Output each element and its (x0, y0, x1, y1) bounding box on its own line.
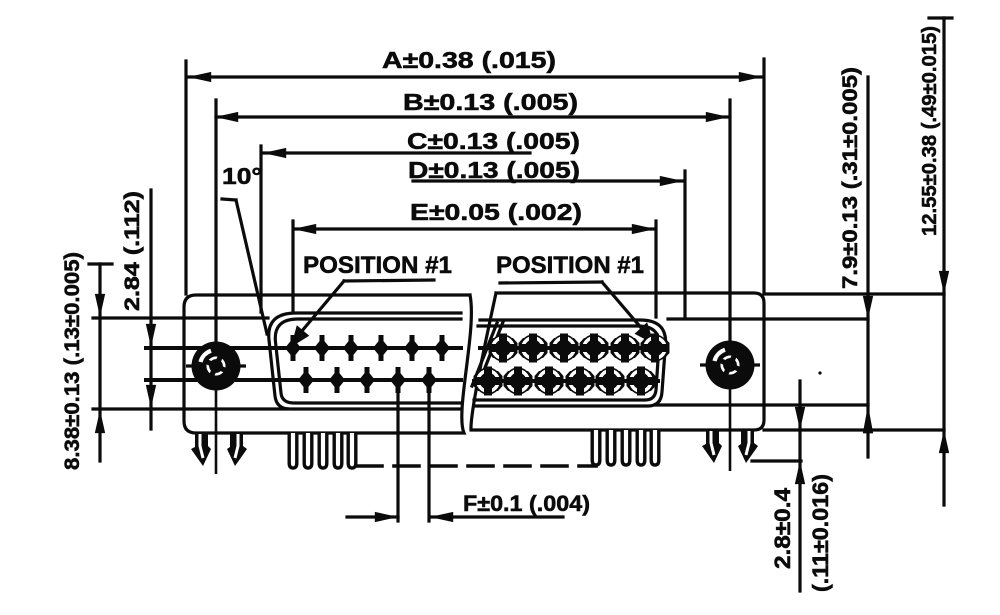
left solder leg 4 (334, 433, 342, 468)
leader line 10 degrees (222, 199, 236, 200)
extension line body top right (764, 292, 944, 295)
dimension line F left (347, 515, 398, 518)
left board lock clip (191, 432, 247, 466)
connector body right half (471, 293, 764, 430)
dimension line F right (430, 515, 563, 518)
socket 2 row2 (504, 367, 533, 396)
dimension line B (216, 115, 728, 118)
extension line body bottom right (764, 428, 944, 431)
left solder leg 1 (289, 433, 297, 468)
svg-text:A±0.38 (.015): A±0.38 (.015) (382, 47, 556, 73)
male pin 2 row1 (314, 335, 330, 361)
right screw centerline lower (729, 389, 732, 471)
svg-text:7.9±0.13 (.31±0.005): 7.9±0.13 (.31±0.005) (839, 67, 862, 289)
extension line insert bottom left (93, 407, 287, 410)
extension line insert bottom right (656, 403, 868, 406)
svg-text:C±0.13 (.005): C±0.13 (.005) (407, 128, 580, 154)
svg-text:E±0.05 (.002): E±0.05 (.002) (410, 199, 582, 225)
extension line A right (762, 59, 765, 293)
svg-text:(.11±0.016): (.11±0.016) (808, 474, 833, 592)
male pin 2 row2 (329, 367, 345, 393)
left jack screw (186, 342, 246, 391)
socket 5 row1 (611, 334, 640, 363)
male pin 5 row1 (404, 335, 420, 361)
male pin 1 row2 (298, 367, 314, 393)
male pin 4 row1 (373, 335, 389, 361)
svg-text:8.38±0.13 (.13±0.005): 8.38±0.13 (.13±0.005) (61, 252, 84, 470)
left insert inner outline (275, 319, 461, 403)
extension line F pin A (396, 381, 399, 521)
dimension line A (189, 75, 761, 78)
extension line insert top left (93, 316, 268, 319)
dimension line 2.84 (149, 190, 152, 429)
svg-text:POSITION #1: POSITION #1 (496, 252, 644, 279)
svg-text:2.84 (.112): 2.84 (.112) (121, 191, 144, 311)
svg-text:F±0.1 (.004): F±0.1 (.004) (463, 491, 590, 516)
svg-text:2.8±0.4: 2.8±0.4 (770, 487, 795, 569)
extension line B left (screw centerline) (214, 100, 217, 342)
right jack screw (700, 341, 760, 390)
male pin 1 row1 (285, 335, 301, 361)
right insert inner outline (474, 326, 659, 400)
connector body left half (184, 295, 471, 433)
socket row 1 line right (480, 346, 664, 350)
socket 5 row2 (596, 367, 625, 396)
right solder leg 2 (607, 430, 615, 465)
leader POSITION #1 right (500, 282, 602, 283)
socket 1 row2 (474, 367, 503, 396)
pin row 2 line left (146, 378, 461, 382)
right insert break cut edge (477, 322, 503, 388)
right solder leg 3 (622, 430, 630, 465)
right solder leg 5 (651, 430, 659, 465)
left screw centerline lower (215, 390, 218, 474)
dimension line C (264, 151, 530, 154)
right solder leg 4 (637, 430, 645, 465)
scan speck (818, 371, 821, 374)
left solder leg 3 (319, 433, 327, 468)
svg-text:POSITION #1: POSITION #1 (303, 252, 452, 279)
male pin 5 row2 (421, 367, 437, 393)
socket 3 row1 (550, 334, 579, 363)
extension line F pin B (427, 381, 430, 521)
left solder leg 2 (304, 433, 312, 468)
socket 4 row1 (580, 334, 609, 363)
socket 2 row1 (519, 334, 548, 363)
svg-text:12.55±0.38 (.49±0.015): 12.55±0.38 (.49±0.015) (919, 26, 941, 236)
right insert outer outline (474, 320, 666, 406)
socket 3 row2 (535, 367, 564, 396)
extension line E left (291, 221, 294, 312)
right board lock clip (702, 429, 758, 463)
male pin 6 row1 (434, 335, 450, 361)
extension line A left (184, 61, 187, 294)
male pin 4 row2 (390, 367, 406, 393)
svg-text:D±0.13 (.005): D±0.13 (.005) (408, 157, 580, 183)
svg-text:B±0.13 (.005): B±0.13 (.005) (403, 89, 578, 115)
socket 1 row1 (489, 334, 518, 363)
pin row 1 line left (146, 346, 461, 350)
extension line B right (screw centerline) (728, 100, 731, 342)
dimension line 7.9 (866, 77, 869, 457)
extension line insert top right (668, 317, 868, 320)
male pin 3 row2 (359, 367, 375, 393)
extension line C left (259, 146, 262, 312)
socket row 2 line right (474, 379, 658, 383)
dimension line 2.8 (798, 381, 801, 591)
male pin 3 row1 (343, 335, 359, 361)
extension line D right (683, 171, 686, 317)
left insert outer outline (269, 313, 461, 409)
dimension line E (294, 227, 654, 230)
dimension line 12.55 (942, 18, 945, 505)
extension line clip bottom right (752, 459, 801, 462)
svg-text:10°: 10° (222, 163, 262, 189)
socket 6 row2 (627, 367, 656, 396)
leader POSITION #1 left (344, 280, 434, 281)
dimension line D (413, 179, 682, 182)
seating plane dashed line (357, 464, 596, 468)
socket 4 row2 (566, 367, 595, 396)
left solder leg 5 (348, 433, 356, 468)
extension line E right (654, 221, 657, 317)
socket 6 row1 (641, 334, 670, 363)
right solder leg 1 (592, 430, 600, 465)
dimension line 8.38 (98, 264, 101, 461)
